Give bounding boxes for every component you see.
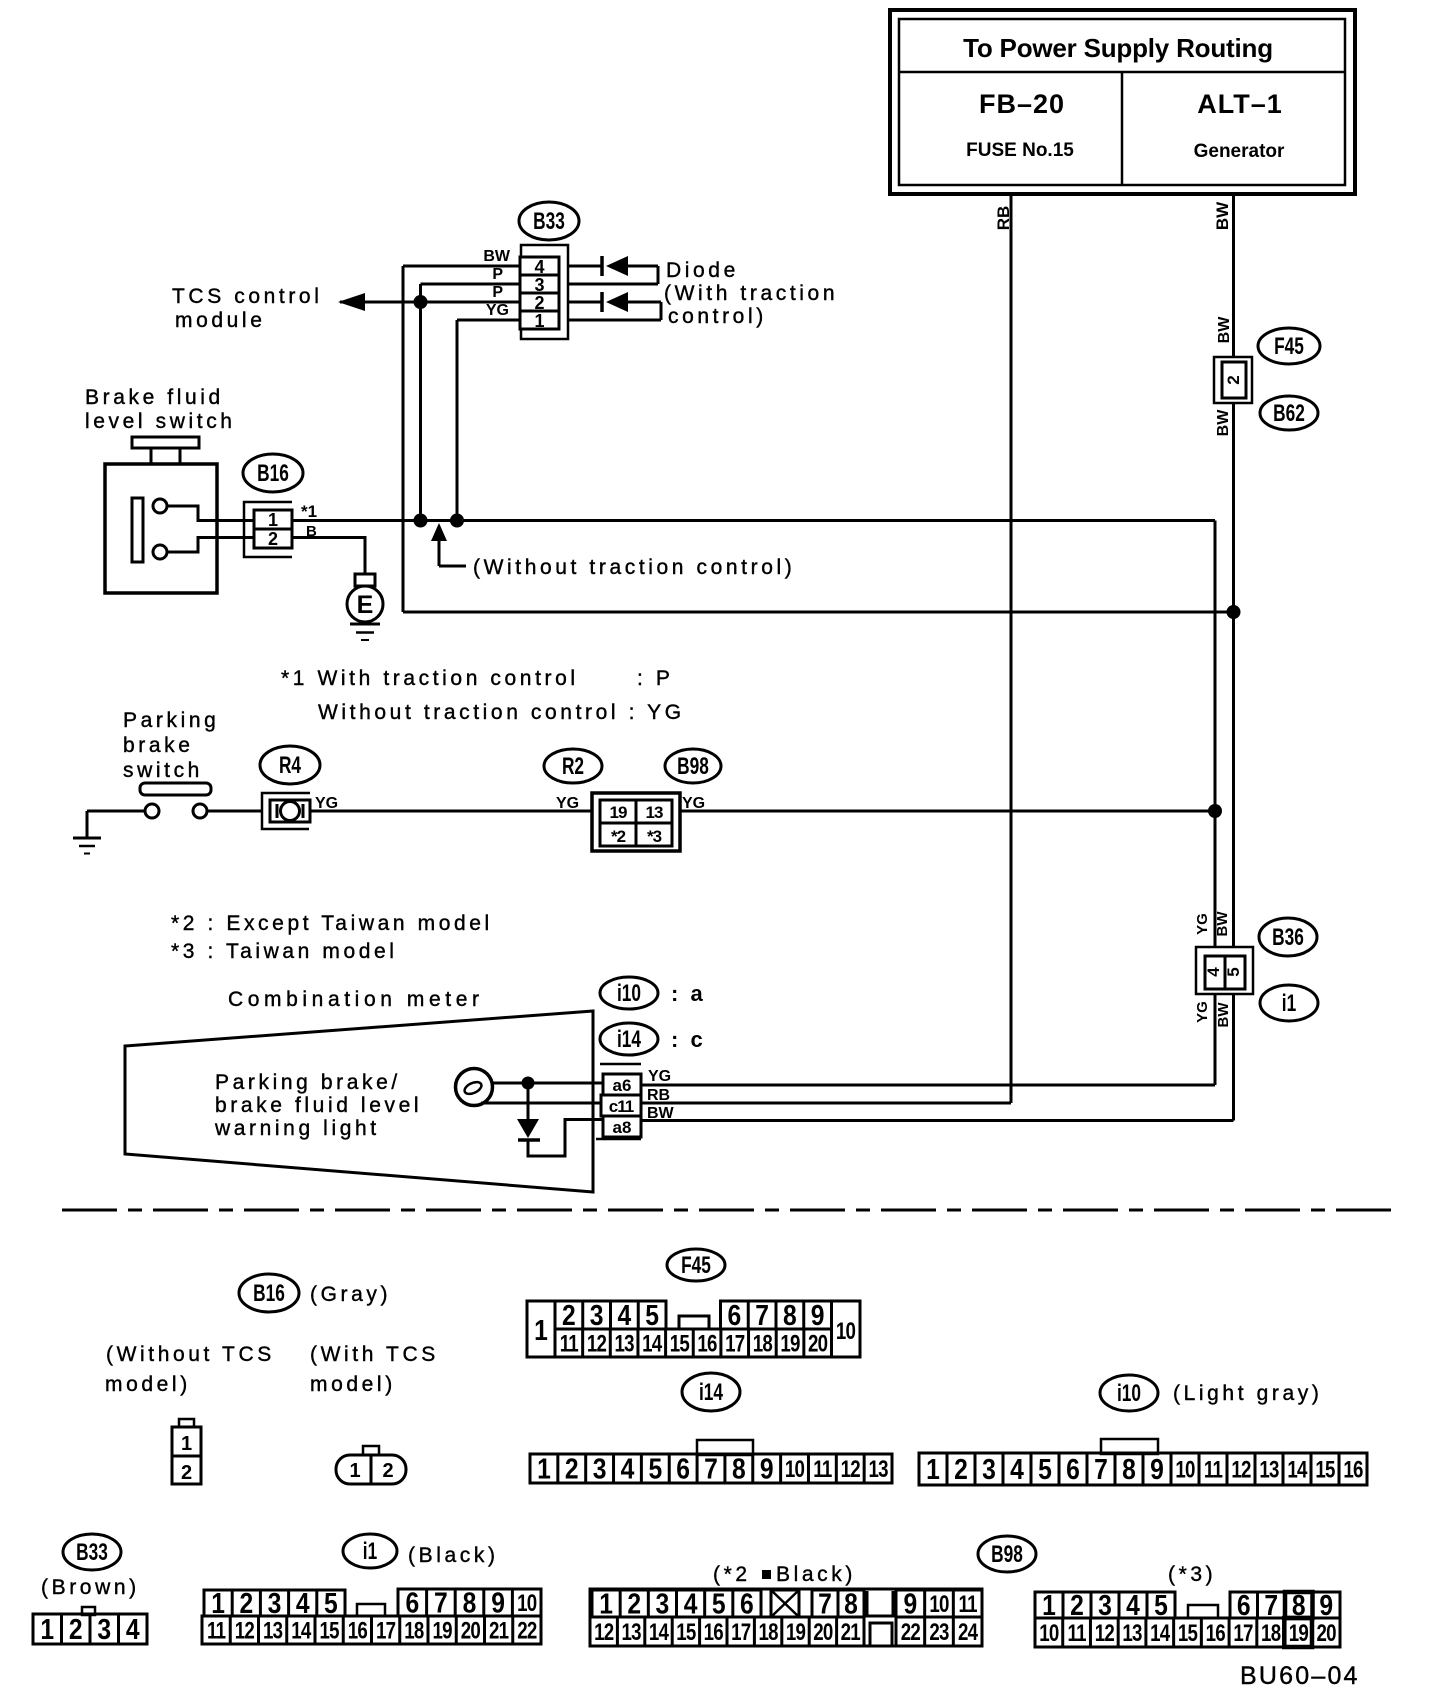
svg-text:i14: i14 xyxy=(699,1379,723,1405)
wire switch to R4 xyxy=(207,810,262,813)
svg-text:RB: RB xyxy=(647,1087,670,1104)
svg-text:15: 15 xyxy=(676,1619,696,1646)
svg-text:YG: YG xyxy=(315,795,338,812)
svg-text:R4: R4 xyxy=(279,752,301,778)
wire lamp to c11 xyxy=(481,1102,601,1105)
svg-text:(With traction: (With traction xyxy=(664,282,838,305)
svg-text:9: 9 xyxy=(1150,1453,1164,1485)
svg-text:23: 23 xyxy=(929,1619,949,1646)
svg-text:19: 19 xyxy=(1289,1620,1309,1647)
wire BW vertical from B33 pin4 down xyxy=(402,266,405,612)
connector i14 pin layout xyxy=(530,1440,892,1485)
svg-text:i10: i10 xyxy=(1117,1380,1141,1406)
svg-text:1: 1 xyxy=(534,311,544,331)
oval i1 bottom (Black) xyxy=(343,1534,499,1568)
svg-text:8: 8 xyxy=(783,1299,797,1331)
svg-text:4: 4 xyxy=(534,257,544,277)
svg-text:11: 11 xyxy=(959,1591,978,1618)
svg-text:(Gray): (Gray) xyxy=(310,1283,391,1306)
wire B33 pin3 P to left xyxy=(421,266,521,284)
svg-text:1: 1 xyxy=(40,1613,54,1645)
svg-text:20: 20 xyxy=(813,1619,833,1646)
svg-text:17: 17 xyxy=(731,1619,751,1646)
svg-text:2: 2 xyxy=(954,1453,968,1485)
svg-text:Without traction control : YG: Without traction control : YG xyxy=(318,701,685,724)
svg-text:2: 2 xyxy=(565,1453,579,1485)
wire RB vertical from FB-20 xyxy=(994,194,1013,1103)
node junction BW at x1233 xyxy=(1227,605,1241,619)
svg-text:Parking: Parking xyxy=(123,709,219,732)
diode D3 in meter xyxy=(517,1083,604,1156)
svg-text:level switch: level switch xyxy=(85,410,236,433)
label *1 and B wire colors xyxy=(301,502,317,540)
svg-text:2: 2 xyxy=(1224,375,1243,384)
svg-text:7: 7 xyxy=(704,1453,718,1485)
warning lamp xyxy=(456,1069,493,1106)
label BU60-04 xyxy=(1240,1662,1360,1690)
svg-text:Diode: Diode xyxy=(666,259,739,282)
svg-text:*3 : Taiwan model: *3 : Taiwan model xyxy=(171,940,398,963)
svg-text:2: 2 xyxy=(562,1299,576,1331)
svg-text:B98: B98 xyxy=(991,1541,1023,1567)
oval i10 bottom (Light gray) xyxy=(1100,1375,1322,1411)
node junction YG at x1215 xyxy=(1208,804,1222,818)
combination meter outline xyxy=(125,1011,593,1192)
svg-text:TCS control: TCS control xyxy=(172,285,322,308)
svg-text:6: 6 xyxy=(740,1588,754,1620)
svg-text:4: 4 xyxy=(621,1453,635,1485)
svg-text:15: 15 xyxy=(319,1617,339,1644)
connector i10 pin layout xyxy=(919,1439,1367,1485)
svg-text:: a: : a xyxy=(671,981,706,1006)
svg-text:i14: i14 xyxy=(617,1026,641,1052)
svg-text:21: 21 xyxy=(841,1619,861,1646)
svg-text:warning light: warning light xyxy=(214,1117,380,1140)
node junction lamp xyxy=(522,1077,535,1090)
ground E xyxy=(347,574,383,640)
svg-text:P: P xyxy=(492,266,503,283)
svg-text:9: 9 xyxy=(491,1587,505,1619)
svg-text:B16: B16 xyxy=(257,460,289,486)
svg-text:B98: B98 xyxy=(677,753,709,779)
svg-text:1: 1 xyxy=(181,1433,192,1455)
svg-text:3: 3 xyxy=(982,1453,996,1485)
svg-text:6: 6 xyxy=(728,1299,742,1331)
connector B16 with TCS xyxy=(336,1446,406,1484)
svg-text:*1 With traction control: *1 With traction control xyxy=(281,667,579,690)
svg-text:6: 6 xyxy=(405,1587,419,1619)
svg-text:14: 14 xyxy=(1150,1620,1170,1647)
svg-text:8: 8 xyxy=(463,1587,477,1619)
svg-text:(Without traction control): (Without traction control) xyxy=(473,556,795,579)
oval B98 bottom xyxy=(978,1536,1036,1572)
svg-text:13: 13 xyxy=(868,1456,888,1483)
svg-text:18: 18 xyxy=(758,1619,778,1646)
svg-text:20: 20 xyxy=(461,1617,481,1644)
svg-text:9: 9 xyxy=(811,1299,825,1331)
svg-text:i1: i1 xyxy=(1282,990,1297,1016)
oval B33 xyxy=(519,202,579,240)
diode D2 between B33 pins 2 and 1 xyxy=(568,292,661,320)
svg-text:10: 10 xyxy=(836,1318,856,1345)
connector B98 pin layout xyxy=(1035,1589,1340,1647)
svg-text:R2: R2 xyxy=(562,753,584,779)
wire ground lead of parking brake switch xyxy=(87,811,144,838)
connector B36/i1 pins 4-5 xyxy=(1194,911,1253,1028)
oval B16 bottom (Gray) xyxy=(239,1274,391,1312)
oval B16 xyxy=(243,454,303,492)
connector *2 pin layout xyxy=(590,1588,982,1646)
svg-text:B36: B36 xyxy=(1272,924,1304,950)
svg-text:2: 2 xyxy=(382,1460,393,1482)
svg-text:F45: F45 xyxy=(681,1252,711,1278)
svg-text:21: 21 xyxy=(489,1617,509,1644)
svg-text:a8: a8 xyxy=(613,1118,632,1137)
svg-text:24: 24 xyxy=(958,1619,978,1646)
svg-text:5: 5 xyxy=(648,1453,662,1485)
svg-text:brake: brake xyxy=(123,734,194,757)
svg-text:10: 10 xyxy=(517,1590,537,1617)
wire YG from B98 to junction xyxy=(680,810,1215,813)
svg-text:2: 2 xyxy=(69,1613,83,1645)
svg-text:12: 12 xyxy=(841,1456,861,1483)
svg-text:4: 4 xyxy=(618,1299,632,1331)
label TCS control module xyxy=(172,285,322,332)
oval i10 : a xyxy=(600,977,706,1009)
svg-text:16: 16 xyxy=(1343,1456,1363,1483)
svg-text:8: 8 xyxy=(732,1453,746,1485)
svg-text:5: 5 xyxy=(645,1299,659,1331)
svg-text:12: 12 xyxy=(1095,1620,1115,1647)
svg-text:*2: *2 xyxy=(611,827,626,846)
svg-text:8: 8 xyxy=(844,1588,858,1620)
svg-text:: P: : P xyxy=(637,667,673,690)
svg-text:16: 16 xyxy=(704,1619,724,1646)
node junction at x457 xyxy=(450,514,464,528)
oval F45 bottom xyxy=(667,1249,725,1281)
svg-text:4: 4 xyxy=(1010,1453,1024,1485)
svg-text:15: 15 xyxy=(670,1330,690,1357)
wire B33 pin4 BW to left xyxy=(403,248,520,266)
svg-text:*3: *3 xyxy=(647,827,662,846)
svg-text:12: 12 xyxy=(587,1330,607,1357)
svg-text:To Power Supply Routing: To Power Supply Routing xyxy=(963,33,1273,63)
svg-text:Combination meter: Combination meter xyxy=(228,988,484,1011)
svg-text:i1: i1 xyxy=(363,1538,378,1564)
svg-text:P: P xyxy=(492,284,503,301)
svg-text:11: 11 xyxy=(1204,1456,1223,1483)
svg-text:13: 13 xyxy=(646,803,663,822)
wire switch contact 1 to B16 pin1 xyxy=(168,506,254,521)
svg-text:17: 17 xyxy=(1233,1620,1253,1647)
svg-text:RB: RB xyxy=(994,206,1013,231)
svg-text:14: 14 xyxy=(1287,1456,1307,1483)
oval i14 : c xyxy=(600,1023,706,1055)
svg-text:12: 12 xyxy=(594,1619,614,1646)
svg-text:YG: YG xyxy=(1194,1001,1211,1023)
svg-text:15: 15 xyxy=(1178,1620,1198,1647)
svg-text:4: 4 xyxy=(1204,967,1223,977)
node junction P pins 2-3 xyxy=(414,295,428,309)
wire YG vertical from B33 pin1 down xyxy=(456,320,459,521)
svg-text:(Without TCS: (Without TCS xyxy=(106,1343,275,1366)
svg-text:4: 4 xyxy=(684,1588,698,1620)
svg-text:YG: YG xyxy=(556,795,579,812)
svg-text:8: 8 xyxy=(1122,1453,1136,1485)
power supply routing box xyxy=(890,10,1355,194)
oval B33 bottom (Brown) xyxy=(41,1534,140,1599)
svg-text:BW: BW xyxy=(1213,201,1232,230)
wire B from B16 pin2 to ground xyxy=(292,538,365,575)
label (*3) xyxy=(1168,1563,1216,1586)
svg-text:F45: F45 xyxy=(1274,333,1304,359)
svg-text:FUSE No.15: FUSE No.15 xyxy=(966,140,1074,161)
svg-text:13: 13 xyxy=(1122,1620,1142,1647)
svg-text:9: 9 xyxy=(903,1588,917,1620)
svg-text:Parking brake/: Parking brake/ xyxy=(215,1071,401,1094)
svg-text:(Light gray): (Light gray) xyxy=(1173,1382,1322,1405)
svg-text:12: 12 xyxy=(235,1617,255,1644)
label (Without TCS model) xyxy=(105,1343,275,1396)
svg-text:11: 11 xyxy=(560,1330,579,1357)
svg-text:13: 13 xyxy=(614,1330,634,1357)
svg-text:model): model) xyxy=(105,1373,191,1396)
svg-text:10: 10 xyxy=(1039,1620,1059,1647)
svg-text:(Black): (Black) xyxy=(408,1544,499,1567)
connector F45 pin 2 inline xyxy=(1214,316,1252,437)
connector B16 without TCS xyxy=(172,1419,201,1484)
svg-text:i10: i10 xyxy=(617,980,641,1006)
wire RB c11 to FB-20 xyxy=(641,1087,1011,1104)
svg-text:5: 5 xyxy=(1038,1453,1052,1485)
oval R2 xyxy=(544,749,602,783)
svg-text:switch: switch xyxy=(123,759,203,782)
svg-text:12: 12 xyxy=(1231,1456,1251,1483)
svg-text:BU60–04: BU60–04 xyxy=(1240,1662,1360,1690)
svg-text:3: 3 xyxy=(590,1299,604,1331)
svg-text:1: 1 xyxy=(926,1453,940,1485)
svg-text:ALT–1: ALT–1 xyxy=(1197,89,1283,119)
svg-text:*1: *1 xyxy=(301,502,317,521)
svg-text:11: 11 xyxy=(207,1617,226,1644)
svg-text:(Brown): (Brown) xyxy=(41,1576,140,1599)
svg-text:13: 13 xyxy=(263,1617,283,1644)
connector R4 xyxy=(262,793,338,829)
diode D1 between B33 pins 4 and 3 xyxy=(568,256,658,284)
oval B36 xyxy=(1259,918,1317,956)
wire BW vertical from ALT-1 xyxy=(1213,194,1234,1121)
svg-text:4: 4 xyxy=(126,1613,140,1645)
oval B98 xyxy=(665,749,721,783)
svg-text:2: 2 xyxy=(534,293,544,313)
svg-text:3: 3 xyxy=(534,275,544,295)
svg-text:BW: BW xyxy=(483,248,511,265)
svg-text:BW: BW xyxy=(1215,409,1232,437)
svg-text:B62: B62 xyxy=(1273,400,1305,426)
svg-text:*2 : Except Taiwan model: *2 : Except Taiwan model xyxy=(171,912,493,935)
wire YG from R4 to R2/B98 xyxy=(310,810,592,813)
wire BW a8 to B36 pin5 xyxy=(641,994,1234,1122)
note *1 wire color legend xyxy=(281,667,685,724)
svg-text:E: E xyxy=(357,591,374,619)
svg-text:17: 17 xyxy=(725,1330,745,1357)
svg-text:7: 7 xyxy=(1094,1453,1108,1485)
oval i1 xyxy=(1260,985,1318,1021)
brake fluid level switch xyxy=(85,386,236,593)
svg-text:B33: B33 xyxy=(76,1539,108,1565)
label Parking brake switch xyxy=(123,709,219,782)
connector R2/B98 pins 19-13 *2-*3 xyxy=(556,793,705,851)
wire YG a6 to B36 pin4 xyxy=(641,994,1215,1085)
oval F45 xyxy=(1258,328,1320,364)
svg-text:c11: c11 xyxy=(609,1097,634,1116)
svg-text:a6: a6 xyxy=(613,1076,632,1095)
svg-text:1: 1 xyxy=(349,1460,360,1482)
svg-text:module: module xyxy=(175,309,265,332)
svg-text:1: 1 xyxy=(534,1314,548,1346)
svg-text:Black): Black) xyxy=(776,1563,856,1586)
svg-text:7: 7 xyxy=(434,1587,448,1619)
svg-text:B33: B33 xyxy=(533,208,565,234)
connector B16 pins 1-2 xyxy=(244,502,292,557)
wire B33 pin2 P to TCS control module with arrow xyxy=(338,284,520,311)
wire B33 pin1 YG to left xyxy=(457,302,520,320)
svg-text:15: 15 xyxy=(1315,1456,1335,1483)
wire P vertical from B33 pin3 down xyxy=(419,284,422,521)
ground symbol parking brake xyxy=(73,838,101,854)
oval i14 bottom xyxy=(682,1373,740,1411)
svg-text:3: 3 xyxy=(656,1588,670,1620)
wire *1 from B16 pin1 to B36 (long horizontal) xyxy=(292,521,1215,948)
svg-text:18: 18 xyxy=(1261,1620,1281,1647)
wire BW long horizontal to right xyxy=(403,611,1234,614)
svg-text:B16: B16 xyxy=(253,1280,285,1306)
oval R4 xyxy=(260,746,320,784)
svg-text:5: 5 xyxy=(1224,967,1243,976)
svg-text:17: 17 xyxy=(376,1617,396,1644)
svg-text:7: 7 xyxy=(755,1299,769,1331)
svg-text:YG: YG xyxy=(648,1068,671,1085)
connector i1 pin layout xyxy=(202,1587,541,1644)
node junction at x420 xyxy=(414,514,428,528)
svg-text:1: 1 xyxy=(268,510,278,530)
svg-text:2: 2 xyxy=(268,529,278,549)
svg-text:(*2: (*2 xyxy=(713,1563,751,1586)
label (*2 Black) xyxy=(713,1563,856,1586)
oval B62 xyxy=(1260,396,1318,430)
svg-text:14: 14 xyxy=(649,1619,669,1646)
svg-text:YG: YG xyxy=(486,302,509,319)
svg-text:16: 16 xyxy=(697,1330,717,1357)
svg-text:BW: BW xyxy=(1214,911,1231,937)
svg-text:2: 2 xyxy=(627,1588,641,1620)
svg-text:BW: BW xyxy=(1215,1002,1232,1028)
svg-text:13: 13 xyxy=(621,1619,641,1646)
svg-text:9: 9 xyxy=(760,1453,774,1485)
label Combination meter xyxy=(228,988,484,1011)
svg-text:1: 1 xyxy=(537,1453,551,1485)
svg-text:22: 22 xyxy=(901,1619,921,1646)
svg-text:10: 10 xyxy=(785,1456,805,1483)
svg-text:model): model) xyxy=(310,1373,396,1396)
svg-text:control): control) xyxy=(668,305,767,328)
note *2 *3 Taiwan legend xyxy=(171,912,493,963)
svg-text:20: 20 xyxy=(1317,1620,1337,1647)
svg-text:3: 3 xyxy=(593,1453,607,1485)
svg-text:11: 11 xyxy=(1067,1620,1086,1647)
svg-text:5: 5 xyxy=(712,1588,726,1620)
svg-text:16: 16 xyxy=(348,1617,368,1644)
svg-text:18: 18 xyxy=(404,1617,424,1644)
svg-text:19: 19 xyxy=(432,1617,452,1644)
label (With TCS model) xyxy=(310,1343,439,1396)
arrow and note (Without traction control) xyxy=(431,523,795,579)
svg-text:19: 19 xyxy=(786,1619,806,1646)
svg-text:: c: : c xyxy=(671,1027,706,1052)
svg-text:Brake fluid: Brake fluid xyxy=(85,386,224,409)
svg-text:FB–20: FB–20 xyxy=(979,89,1065,119)
connector B33 pins 4-3-2-1 xyxy=(520,245,568,339)
svg-text:22: 22 xyxy=(517,1617,537,1644)
svg-text:19: 19 xyxy=(610,803,627,822)
svg-text:YG: YG xyxy=(1194,913,1211,935)
svg-text:7: 7 xyxy=(818,1588,832,1620)
svg-text:6: 6 xyxy=(1066,1453,1080,1485)
svg-text:1: 1 xyxy=(599,1588,613,1620)
dashed separator xyxy=(62,1209,1398,1212)
connector F45 pin layout xyxy=(527,1299,860,1357)
svg-text:10: 10 xyxy=(929,1591,949,1618)
svg-text:13: 13 xyxy=(1259,1456,1279,1483)
parking brake switch xyxy=(140,783,211,818)
svg-text:10: 10 xyxy=(1175,1456,1195,1483)
svg-text:19: 19 xyxy=(780,1330,800,1357)
svg-text:brake fluid level: brake fluid level xyxy=(215,1094,422,1117)
svg-text:2: 2 xyxy=(181,1462,192,1484)
connector B33 pin layout xyxy=(33,1607,147,1645)
svg-text:YG: YG xyxy=(682,795,705,812)
svg-text:Generator: Generator xyxy=(1194,141,1285,162)
svg-text:18: 18 xyxy=(753,1330,773,1357)
svg-text:11: 11 xyxy=(813,1456,832,1483)
svg-text:3: 3 xyxy=(97,1613,111,1645)
label Parking brake/brake fluid level warning light xyxy=(214,1071,422,1140)
label Diode (With traction control) xyxy=(664,259,838,328)
wire lamp to a6 xyxy=(491,1082,603,1085)
svg-text:BW: BW xyxy=(1216,316,1233,344)
wire switch contact 2 to B16 pin2 xyxy=(167,538,253,553)
svg-text:(*3): (*3) xyxy=(1168,1563,1216,1586)
svg-text:(With TCS: (With TCS xyxy=(310,1343,439,1366)
svg-text:20: 20 xyxy=(808,1330,828,1357)
svg-text:14: 14 xyxy=(291,1617,311,1644)
svg-text:14: 14 xyxy=(642,1330,662,1357)
svg-text:6: 6 xyxy=(676,1453,690,1485)
svg-text:16: 16 xyxy=(1206,1620,1226,1647)
connector i10/i14 cells a6 c11 a8 xyxy=(596,1064,641,1139)
